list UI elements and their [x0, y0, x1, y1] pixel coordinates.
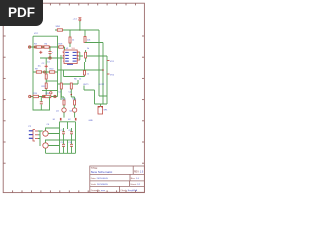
svg-text:1k: 1k — [72, 40, 75, 42]
svg-text:R9: R9 — [35, 68, 39, 70]
capacitor C10 — [70, 144, 73, 146]
wire — [60, 139, 76, 141]
junction node — [42, 95, 44, 97]
junction — [102, 69, 104, 71]
wire loop v — [60, 55, 62, 100]
junction — [101, 106, 103, 108]
resistor R20 — [84, 71, 86, 76]
svg-text:REV: 1.0: REV: 1.0 — [134, 172, 144, 174]
junction node — [54, 95, 56, 97]
svg-text:C7: C7 — [61, 130, 63, 132]
capacitor C1 — [49, 52, 52, 54]
wire row — [40, 57, 65, 59]
pin mark — [60, 118, 62, 121]
svg-text:DrawnBy: user: DrawnBy: user — [91, 189, 106, 192]
wire — [69, 30, 71, 47]
wire — [84, 30, 86, 37]
svg-text:+C1: +C1 — [73, 18, 78, 20]
speaker SP1 — [98, 107, 103, 115]
wire — [33, 35, 58, 37]
svg-text:R6: R6 — [74, 79, 78, 81]
wire — [45, 58, 47, 72]
svg-text:C2: C2 — [42, 63, 46, 65]
resistor R5 — [85, 52, 87, 58]
junction — [79, 29, 81, 31]
capacitor C4 — [70, 83, 72, 89]
junction node — [49, 57, 51, 59]
capacitor C5 — [40, 102, 43, 104]
op-amp U1 pin numbers — [63, 52, 78, 62]
resistor R16 — [74, 100, 76, 105]
wire right bus 3 — [106, 56, 108, 96]
resistor R12 — [45, 74, 47, 79]
svg-text:GND: GND — [89, 120, 94, 122]
svg-text:+: + — [52, 52, 54, 54]
wire — [71, 128, 73, 140]
svg-text:Date: 2023-08-05: Date: 2023-08-05 — [91, 177, 109, 180]
capacitor C8 polarized — [39, 51, 42, 54]
resistor R1 — [69, 37, 71, 43]
trimmer RP1 pin — [34, 46, 36, 48]
wire mid bus — [57, 36, 59, 96]
battery terminal bar — [78, 17, 81, 19]
svg-text:10u: 10u — [38, 65, 41, 67]
wire right bus — [98, 30, 100, 96]
transistor Q3 — [43, 131, 48, 136]
svg-text:R10: R10 — [50, 68, 55, 70]
junction — [49, 46, 51, 48]
wire loop — [64, 70, 85, 77]
svg-text:New Schematic: New Schematic — [91, 170, 113, 174]
svg-text:C1: C1 — [47, 61, 51, 63]
svg-text:Q1: Q1 — [56, 110, 60, 112]
op-amp U1 pins — [63, 52, 81, 60]
resistor R4 — [44, 46, 49, 48]
net flag N2 — [107, 73, 110, 75]
resistor R10 — [50, 71, 55, 73]
resistor R14 — [45, 95, 51, 97]
junction — [71, 94, 73, 96]
trimmer RP1 pin — [42, 46, 44, 48]
connector P2 — [33, 130, 38, 142]
svg-text:1k: 1k — [87, 74, 89, 76]
wire long rail — [58, 69, 103, 71]
capacitor C9 — [62, 144, 65, 146]
capacitor C8 — [70, 132, 73, 134]
svg-text:R3: R3 — [34, 44, 38, 46]
junction — [98, 106, 100, 108]
connector P1 pin — [79, 19, 81, 21]
capacitor C7 — [62, 132, 65, 134]
svg-text:Sheet: 1/1: Sheet: 1/1 — [130, 183, 141, 186]
svg-text:1k: 1k — [79, 79, 82, 81]
svg-text:SW1: SW1 — [56, 26, 61, 28]
wire — [79, 52, 81, 60]
transistor Q1 — [62, 108, 66, 112]
svg-text:10k: 10k — [87, 40, 91, 42]
wire — [71, 140, 73, 153]
svg-text:C6: C6 — [47, 124, 51, 126]
wire — [49, 47, 51, 51]
svg-text:1k: 1k — [87, 48, 90, 50]
wire — [38, 131, 43, 146]
svg-text:VO1: VO1 — [110, 61, 115, 63]
svg-text:P2: P2 — [29, 126, 32, 128]
wire left bus — [32, 36, 34, 97]
wire row — [30, 96, 58, 98]
junction node — [43, 71, 45, 73]
svg-text:VCC: VCC — [34, 33, 39, 35]
svg-text:Rev: 1.0: Rev: 1.0 — [131, 178, 140, 180]
wire — [63, 140, 65, 153]
wire — [40, 97, 42, 102]
wire — [64, 52, 66, 58]
wire — [49, 54, 51, 58]
svg-text:E1: E1 — [53, 119, 55, 121]
op-amp U1 body — [64, 50, 77, 64]
transistor Q4 — [43, 143, 48, 148]
svg-text:R18: R18 — [59, 44, 64, 46]
wire rail — [55, 29, 99, 31]
resistor R9 — [36, 71, 41, 73]
svg-text:VO2: VO2 — [110, 75, 115, 77]
wire right bus 2 — [102, 43, 104, 105]
wire row — [46, 80, 57, 82]
fuse F1 — [57, 29, 62, 31]
resistor R19 — [45, 83, 47, 89]
resistor R3 — [36, 46, 41, 48]
svg-text:C8: C8 — [69, 130, 71, 132]
wire — [85, 42, 103, 44]
net flag N1 — [107, 60, 110, 62]
wire grid — [60, 122, 76, 154]
wire row — [58, 80, 78, 84]
wire — [45, 72, 47, 97]
wire — [71, 89, 74, 118]
svg-text:Vault: 2023/08/05: Vault: 2023/08/05 — [91, 183, 109, 186]
wire — [61, 89, 64, 118]
terminal — [29, 95, 31, 97]
pin mark — [75, 118, 77, 121]
connector P2 pin names — [29, 130, 33, 139]
resistor R2 — [84, 37, 86, 43]
svg-text:E2: E2 — [68, 119, 70, 121]
wire row — [33, 71, 58, 73]
wire — [79, 21, 81, 30]
wire — [80, 50, 108, 62]
svg-text:SP1: SP1 — [104, 110, 109, 112]
op-amp U1 pin names — [65, 52, 76, 65]
svg-text:OUT2: OUT2 — [99, 84, 105, 86]
resistor R13 — [33, 95, 39, 97]
svg-text:R13: R13 — [33, 93, 38, 95]
junction node — [50, 92, 52, 94]
connector J1 pin — [28, 46, 30, 48]
wire box — [33, 97, 50, 111]
wire — [46, 128, 76, 153]
svg-text:Check: EasyEDA: Check: EasyEDA — [120, 189, 137, 192]
wire row — [29, 46, 65, 48]
svg-text:C9: C9 — [61, 142, 63, 144]
resistor R15 — [63, 100, 65, 105]
svg-text:R4: R4 — [45, 44, 49, 46]
capacitor C2 polarized — [45, 65, 48, 69]
transistor Q2 — [72, 108, 76, 112]
svg-text:C10: C10 — [69, 142, 72, 144]
capacitor C3 — [60, 83, 62, 89]
wire — [64, 47, 66, 52]
resistor R18 — [59, 46, 64, 48]
wire row — [42, 90, 58, 92]
wire — [63, 128, 65, 140]
wire output — [84, 86, 107, 107]
wire — [40, 104, 42, 110]
wire — [84, 62, 86, 77]
